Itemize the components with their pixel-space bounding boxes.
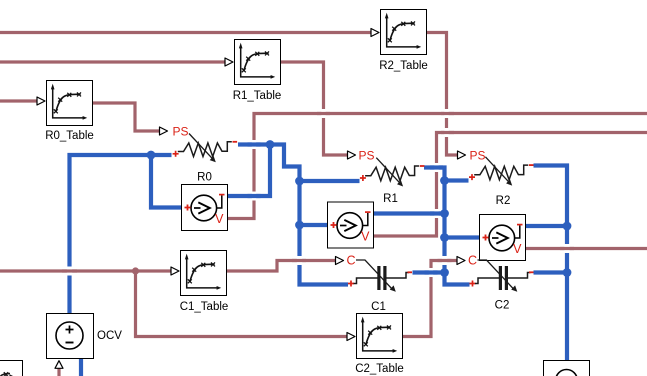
crossing: blue y196 over maroon x254 [252,192,256,201]
svg-text:C2: C2 [495,300,510,312]
node dot [563,222,572,231]
svg-text:R1: R1 [383,193,398,205]
node dot [295,177,304,186]
wire: input line to C1_Table [0,269,171,272]
wire: R1_Table output to R1 PS port [280,62,348,155]
crossing: maroon y113.5 over maroon x323.5 [321,109,325,118]
wire: R2 sensor V output [526,247,647,250]
crossing: blue y143.5 over maroon x254 [252,140,256,149]
wire: R0_Table output to R0 PS port [93,103,160,131]
wire: input line to R1_Table [0,60,225,63]
wire: node to R1 sensor + [300,223,328,227]
crossing: maroon y132.5 over maroon x447.5 [444,128,448,137]
wire: C2 - terminal to node D [534,270,568,274]
svg-text:PS: PS [358,149,374,163]
wire: R1 - terminal down node C [424,168,470,285]
voltage sensor under R2 [480,215,526,261]
lookup table C1_Table [181,251,227,296]
wire: R0 sensor V output [228,114,647,219]
wire: R1 sensor V output [374,133,647,237]
crossing: maroon y260.5 over blue x299.5 [297,256,302,265]
wire: OCV bottom port down [79,359,83,376]
wire: node C to R2 + [445,178,469,182]
svg-text:C1_Table: C1_Table [180,301,229,313]
wire: C1 - terminal to node C [413,270,445,274]
node dot [440,233,449,242]
node dot [266,140,275,149]
crossing: blue y213.5 over maroon x436.5 [434,209,438,218]
capacitor C1 [336,254,413,314]
wire: OCV top to R0 + node [70,155,172,313]
wire: R2_Table output to R2 PS port [427,33,458,156]
wire: input line to R0_Table [0,99,37,102]
OCV voltage source block [47,314,123,369]
resistor R0 [160,125,238,184]
wire: C2_Table output to C2 C port [403,261,457,337]
resistor R2 [458,149,534,208]
node dot [440,209,449,218]
node dot [440,268,449,277]
crossing: blue y167.5 over maroon x436.5 [434,163,438,172]
capacitor C2 [457,254,534,312]
partial table block bottom-left [0,361,23,376]
wire: C1_Table output to C1 C port [227,261,336,272]
voltage sensor under R0 [182,185,228,231]
crossing: blue y272.5 over maroon x431 [429,268,433,277]
node dot maroon [132,267,139,274]
partial sensor block bottom-right [544,361,590,376]
svg-text:C: C [468,254,477,268]
svg-text:R0: R0 [197,172,212,184]
svg-text:OCV: OCV [97,330,122,342]
node dot [295,221,304,230]
wire: node B down to R0 sensor - [228,145,270,197]
wire: input line to R2_Table [0,31,371,34]
svg-text:R2: R2 [496,195,511,207]
wire: R0 - terminal to node B [238,142,270,146]
wire: branch to C2_Table [136,271,348,337]
node dot [563,268,572,277]
svg-text:PS: PS [172,125,188,139]
node dot [147,151,156,160]
svg-text:R0_Table: R0_Table [45,130,94,142]
lookup table C2_Table [357,314,403,359]
wire: node to R0 sensor + [151,155,181,208]
svg-text:C2_Table: C2_Table [355,363,404,375]
wire: R2 - terminal down to bottom sensor [534,166,568,361]
svg-text:C1: C1 [371,301,386,313]
wire: R2 sensor - to node D [526,224,567,228]
resistor R1 [348,149,425,206]
crossing: maroon y271 over blue x69.5 [67,267,72,276]
svg-text:PS: PS [469,149,485,163]
lookup table R2_Table [381,10,427,55]
voltage sensor under R1 [328,202,374,248]
svg-text:R1_Table: R1_Table [233,90,282,102]
lookup table R1_Table [235,40,281,85]
wire: node B to R1 + and C1 + [270,145,348,285]
crossing: maroon y248.5 over blue x567 [564,244,569,253]
crossing: maroon y113.5 over maroon x447.5 [444,109,448,118]
wire: OCV signal input stub [57,368,60,376]
lookup table R0_Table [47,81,93,126]
wire: node to R1 + terminal [300,179,360,183]
wire: R1 sensor - to node C [374,211,445,215]
svg-text:R2_Table: R2_Table [379,60,428,72]
svg-text:C: C [346,254,355,268]
wire: node C to R2 sensor + [445,235,480,239]
crossing: maroon y260.5 over blue x444.5 [442,256,447,265]
node dot [440,176,449,185]
